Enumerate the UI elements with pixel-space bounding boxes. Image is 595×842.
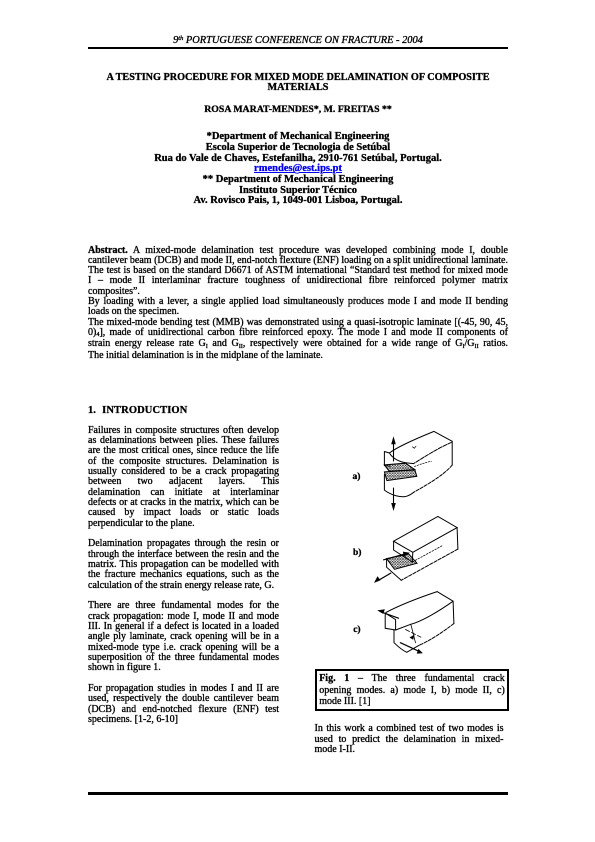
bar right end vertical edge: [451, 441, 453, 465]
top-left curved edge: [386, 592, 437, 613]
label b): [353, 549, 361, 559]
upper end face: [394, 541, 413, 562]
bar far end edge: [434, 431, 452, 441]
arrow lower left: [378, 573, 391, 581]
lower half left portion: [387, 559, 402, 581]
bottom half: [394, 630, 420, 652]
running head: [88, 36, 508, 47]
bottom front long edge: [401, 549, 458, 580]
label a): [353, 473, 361, 483]
right column paragraph: [315, 724, 504, 755]
title: [88, 73, 508, 94]
load arrow down: [393, 488, 395, 508]
mode III sketch (c): [377, 592, 454, 654]
box top face: [394, 516, 458, 552]
figure caption box: [315, 669, 510, 711]
figure 1: three crack opening mode sketches: [340, 425, 465, 665]
load arrow up: [393, 439, 395, 461]
authors: [88, 105, 508, 115]
bar bottom-front long edge: [414, 465, 453, 492]
bottom flap: [384, 475, 413, 497]
bar top-left long edge: [389, 431, 434, 453]
flap underside edge: [396, 624, 411, 630]
small tick on top face: [413, 446, 417, 448]
top face front edge: [414, 442, 452, 463]
mode II sketch (b): [374, 516, 458, 583]
footer rule: [88, 792, 508, 795]
header rule: [88, 47, 508, 49]
exposed crack surface hatched: [387, 554, 417, 569]
right edge: [452, 601, 455, 623]
front split edge: [411, 624, 416, 642]
top face front edge: [411, 601, 453, 624]
crack upper face hatched: [384, 463, 414, 471]
label c): [353, 626, 360, 636]
arrow top-left: [381, 612, 399, 618]
top flap left face: [384, 452, 390, 467]
crack dashes: [406, 630, 422, 638]
top flap front curve: [389, 453, 413, 464]
far end edge: [437, 592, 453, 602]
crack lower face hatched: [384, 470, 416, 481]
crack plane line on side: [415, 461, 432, 466]
right end lower edge: [456, 528, 459, 550]
arrow bottom-right: [400, 643, 419, 652]
abstract: [88, 246, 508, 362]
arrow into crack: [384, 554, 405, 560]
front face: crack line dotted along side: [412, 545, 443, 562]
mode I sketch (a): [384, 431, 452, 511]
left column: [88, 426, 279, 726]
affiliations: [88, 132, 508, 207]
top flap left face: [385, 612, 395, 630]
section heading: [88, 406, 187, 416]
bottom-right edge: [420, 624, 454, 646]
